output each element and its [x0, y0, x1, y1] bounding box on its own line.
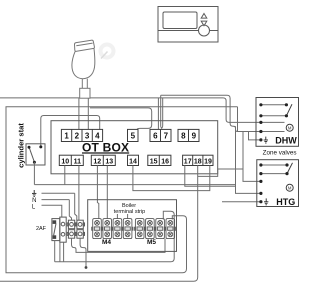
- watermark swirl: [101, 45, 114, 58]
- cylinder stat wire up to terminal 4: [41, 116, 100, 148]
- svg-text:8: 8: [181, 131, 186, 140]
- terminal group 15-16: [148, 155, 171, 165]
- wire HTG row4 feed: [236, 126, 261, 193]
- svg-text:DHW: DHW: [275, 135, 297, 145]
- wire sensor lead A: [78, 98, 80, 129]
- svg-text:2: 2: [75, 131, 80, 140]
- wire A to DHW motor row: [161, 95, 261, 131]
- wire neutral supply line N: [42, 199, 70, 201]
- svg-text:5: 5: [131, 131, 136, 140]
- DHW row3: [261, 121, 285, 123]
- DHW earth row: [259, 138, 262, 141]
- terminal 14: [128, 155, 139, 165]
- svg-text:terminal strip: terminal strip: [114, 209, 145, 215]
- supply earth symbol: [32, 190, 36, 196]
- DHW switch contacts: [261, 104, 287, 106]
- wire terminal 14 to 19: [133, 166, 210, 191]
- svg-text:18: 18: [194, 158, 202, 165]
- fuse holder 2AF: [52, 217, 66, 242]
- OT BOX: [51, 121, 218, 174]
- programmer U2: [158, 7, 218, 43]
- wire bottom run to M5 top: [55, 211, 175, 261]
- svg-text:14: 14: [129, 158, 137, 165]
- wire sensor lead B: [87, 98, 89, 129]
- wire earth stub with dot: [80, 238, 86, 267]
- svg-text:6: 6: [153, 131, 158, 140]
- HTG switch contacts: [261, 164, 287, 166]
- terminal group 12-13: [91, 155, 115, 165]
- wire terminal 10 drop: [64, 166, 66, 185]
- svg-text:11: 11: [74, 158, 82, 165]
- HTG earth symbol: [264, 198, 268, 204]
- svg-text:10: 10: [61, 158, 69, 165]
- wire mid connector to M5 bottom: [72, 238, 166, 252]
- wire HTG earth lead: [222, 201, 261, 203]
- boiler terminal strip box: [88, 200, 177, 252]
- terminal digits top row: [64, 131, 196, 140]
- svg-text:12: 12: [93, 158, 101, 165]
- wire mid horizontal run: [34, 184, 235, 186]
- terminal connector mid: [67, 220, 76, 238]
- HTG zone valve box: [257, 160, 299, 207]
- wire terminal 12 drop: [97, 166, 98, 219]
- HTG earth node: [259, 200, 262, 203]
- terminal unit M5-3: [155, 219, 166, 239]
- terminal group 10-11: [59, 155, 83, 165]
- terminal unit M4-4: [122, 219, 133, 239]
- svg-text:2AF: 2AF: [36, 226, 47, 232]
- svg-text:15: 15: [150, 158, 158, 165]
- wire earth supply line: [42, 192, 75, 194]
- svg-text:9: 9: [192, 131, 197, 140]
- terminal group 1-4: [61, 129, 102, 141]
- svg-text:Zone valves: Zone valves: [263, 149, 297, 156]
- DHW row4: [261, 131, 285, 133]
- DHW motor M: [286, 124, 293, 131]
- HTG motor M: [286, 184, 293, 191]
- wire HTG row3 feed: [243, 132, 261, 182]
- wire DHW earth feed: [249, 132, 261, 140]
- svg-text:19: 19: [204, 158, 212, 165]
- svg-text:13: 13: [105, 158, 113, 165]
- stub M4 unit3: [116, 214, 118, 219]
- wire terminal 5: [90, 108, 152, 130]
- enclosure: [6, 107, 238, 273]
- cylinder stat switch: [26, 144, 45, 165]
- svg-text:HTG: HTG: [276, 197, 295, 207]
- wire stat down: [33, 162, 35, 184]
- terminal unit M5-2: [145, 219, 156, 239]
- svg-text:17: 17: [184, 158, 192, 165]
- svg-text:M5: M5: [147, 239, 156, 246]
- svg-text:N: N: [32, 198, 36, 204]
- terminal 5: [128, 129, 139, 141]
- terminal connector right: [76, 220, 85, 238]
- svg-text:cylinder stat: cylinder stat: [17, 123, 26, 168]
- wire fuse bottom drops: [54, 241, 56, 262]
- terminal group 17-18-19: [183, 155, 213, 165]
- svg-text:OT BOX: OT BOX: [82, 140, 129, 154]
- svg-text:7: 7: [164, 131, 169, 140]
- DHW zone valve box: [256, 98, 299, 147]
- HTG row3 node: [259, 180, 262, 183]
- wire terminal 17: [185, 166, 236, 187]
- DHW earth symbol: [264, 137, 268, 143]
- svg-text:16: 16: [161, 158, 169, 165]
- wire full-width mains line: [0, 98, 261, 123]
- svg-text:M: M: [288, 185, 292, 190]
- terminal group 6-7: [150, 129, 171, 141]
- wire terminal 13 drop: [106, 166, 108, 219]
- wire terminal 11 drop: [78, 166, 80, 221]
- terminal group 8-9: [178, 129, 199, 141]
- svg-text:M: M: [288, 125, 292, 130]
- stub M4 unit4: [127, 214, 129, 219]
- svg-text:4: 4: [95, 131, 100, 140]
- svg-text:1: 1: [64, 131, 69, 140]
- svg-text:3: 3: [85, 131, 90, 140]
- wire terminal 7 loop: [161, 95, 163, 129]
- terminal digits bottom row: [61, 158, 212, 165]
- terminal unit M4-1: [92, 219, 103, 239]
- HTG row4 node: [259, 192, 262, 195]
- enclosure right edge: [237, 107, 239, 132]
- terminal unit M4-2: [102, 219, 113, 239]
- terminal unit M5-1: [134, 219, 145, 239]
- terminal unit M5-4: [165, 219, 176, 239]
- svg-text:M4: M4: [102, 239, 111, 246]
- wire to terminal 6: [157, 98, 159, 129]
- terminal unit M4-3: [112, 219, 123, 239]
- wire terminal 18 wrap: [0, 166, 198, 282]
- wire live supply line L: [42, 205, 62, 217]
- outside sensor: [72, 40, 95, 98]
